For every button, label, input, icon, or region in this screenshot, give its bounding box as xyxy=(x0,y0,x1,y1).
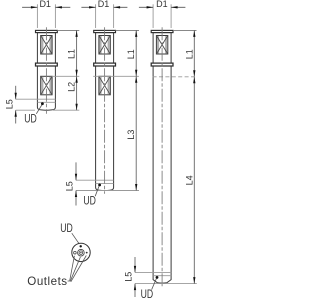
dimension L5 column 3 xyxy=(124,257,136,297)
lower body with rounded tip column 1 xyxy=(37,66,55,110)
svg-text:UD: UD xyxy=(24,111,37,125)
outlet dot column 3 xyxy=(156,276,159,279)
left outlet hole in detail xyxy=(74,251,77,254)
svg-text:L2: L2 xyxy=(67,82,77,92)
coil box 1 column 1 xyxy=(41,36,52,55)
dimension L2 column 1 xyxy=(53,76,79,110)
upper body column 2 xyxy=(96,33,114,64)
dimension L5 column 1 xyxy=(4,86,35,124)
svg-text:L1: L1 xyxy=(126,49,136,59)
outlet dot column 1 xyxy=(41,102,44,105)
svg-text:L4: L4 xyxy=(184,175,194,185)
upper body column 3 xyxy=(153,33,171,64)
svg-text:UD: UD xyxy=(60,221,73,235)
Outlets label with leader lines xyxy=(27,256,86,289)
center line column 1 xyxy=(45,27,47,113)
svg-text:UD: UD xyxy=(83,194,96,208)
dimension L4 column 3 xyxy=(135,77,197,284)
center bullseye outlet in detail xyxy=(78,249,85,256)
nose groove line column 3 xyxy=(153,275,171,277)
svg-text:L1: L1 xyxy=(67,49,77,59)
detail view circle xyxy=(72,243,90,261)
nose feature line column 3 xyxy=(135,271,171,273)
svg-text:L5: L5 xyxy=(65,181,75,191)
right outlet hole in detail xyxy=(86,252,88,254)
svg-text:L3: L3 xyxy=(126,130,136,140)
nose feature line column 1 xyxy=(16,98,56,100)
dimension L5 column 2 xyxy=(65,162,77,205)
dimension L3 column 2 xyxy=(76,76,139,190)
center line column 3 xyxy=(161,27,163,288)
UD label column 2 xyxy=(83,186,99,208)
dimension L1 column 3 xyxy=(173,30,197,76)
dimension L1 column 2 xyxy=(93,30,139,76)
center line column 2 xyxy=(104,27,106,194)
top cap column 1 xyxy=(36,30,58,32)
coil box 2 column 1 xyxy=(41,76,52,95)
dimension D1 column 1 xyxy=(22,0,70,28)
UD label column 3 xyxy=(141,279,157,300)
hidden coil level dashed line column 3 xyxy=(153,76,195,78)
dimension D1 column 2 xyxy=(81,0,127,28)
coil box 1 column 3 xyxy=(156,36,167,55)
svg-text:Outlets: Outlets xyxy=(27,275,67,288)
UD label column 1 xyxy=(24,105,42,125)
svg-text:D1: D1 xyxy=(39,0,51,9)
svg-text:L5: L5 xyxy=(124,272,134,282)
nose groove line column 2 xyxy=(96,182,114,184)
long tube with rounded tip column 2 xyxy=(96,66,114,191)
nose feature line column 2 xyxy=(76,179,114,181)
upper body column 1 xyxy=(37,33,55,64)
coil box 2 column 2 xyxy=(99,76,110,95)
UD outlet dot in detail xyxy=(80,245,82,247)
nose groove line column 1 xyxy=(37,101,55,103)
dimension D1 column 3 xyxy=(139,0,186,28)
coil box 1 column 2 xyxy=(99,36,110,55)
middle band column 3 xyxy=(151,63,173,66)
svg-text:L5: L5 xyxy=(4,99,14,109)
middle band column 2 xyxy=(94,63,116,66)
top cap column 3 xyxy=(151,30,173,32)
svg-text:D1: D1 xyxy=(98,0,110,9)
outlet dot column 2 xyxy=(98,184,101,187)
svg-text:D1: D1 xyxy=(156,0,168,9)
UD label detail view xyxy=(60,221,80,245)
svg-text:L1: L1 xyxy=(184,49,194,59)
long tube with rounded tip column 3 xyxy=(153,66,171,283)
dimension L1 column 1 xyxy=(52,30,80,76)
top cap column 2 xyxy=(94,30,116,32)
middle band column 1 xyxy=(36,63,58,66)
svg-text:UD: UD xyxy=(141,287,154,300)
